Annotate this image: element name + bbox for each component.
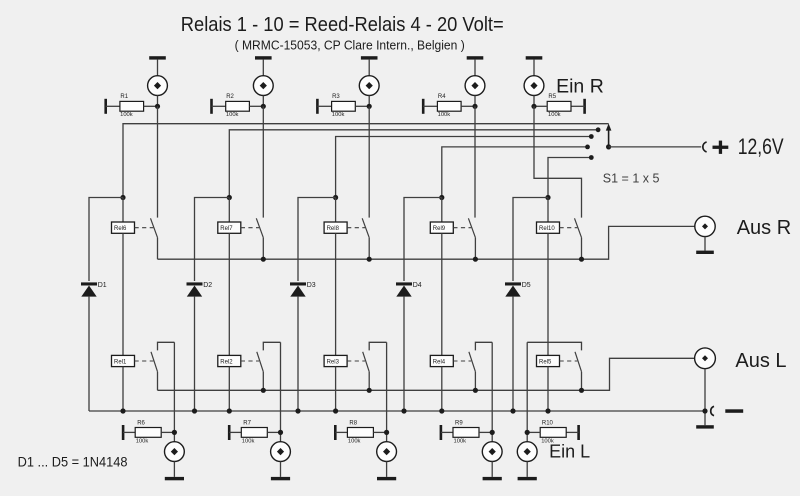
svg-text:100k: 100k: [348, 439, 361, 445]
svg-text:R2: R2: [226, 94, 234, 100]
wire coil feed into Rel9: [441, 198, 443, 223]
node rail junction coil column 4: [439, 408, 444, 413]
switch S1 wiper arm: [606, 124, 612, 147]
svg-text:Rel9: Rel9: [433, 226, 446, 232]
svg-text:R9: R9: [455, 421, 463, 427]
relay coil Rel5: [537, 355, 560, 366]
relay coil Rel6: [112, 222, 135, 233]
wire diode D1 to negative rail: [88, 297, 90, 411]
node rail junction diode D3: [295, 408, 300, 413]
relay contact Rel3 (switch): [363, 352, 370, 391]
switch S1 pole dot: [606, 144, 611, 149]
dashed actuation link Rel3: [347, 360, 365, 362]
wire S1 pole to +12,6V terminal: [609, 146, 702, 148]
node junction R2/jack 2: [261, 104, 266, 109]
svg-text:100k: 100k: [332, 112, 345, 118]
svg-text:Ein R: Ein R: [556, 76, 604, 98]
node rail junction diode D2: [192, 408, 197, 413]
ground (top, input 3): [361, 56, 378, 75]
dashed actuation link Rel4: [453, 360, 471, 362]
node rail junction coil column 1: [120, 408, 125, 413]
wire coil junction to diode D2: [195, 198, 230, 282]
node Aus L bus junction column 2: [261, 388, 266, 393]
relay contact Rel7 (switch): [256, 218, 263, 259]
node Aus R bus junction column 4: [473, 257, 478, 262]
node junction R7/jack Ein L 2: [278, 430, 283, 435]
wire jack 4 to node R4: [474, 96, 476, 107]
wire Aus L bus: [158, 358, 695, 390]
resistor R2 100k: [210, 94, 263, 118]
terminal socket +12,6V: [703, 142, 707, 152]
diode D2 1N4148: [187, 282, 203, 296]
resistor R3 100k: [316, 94, 369, 118]
wire diode D2 to negative rail: [194, 297, 196, 411]
svg-text:Ein L: Ein L: [549, 441, 590, 461]
wire coil Rel2 to negative rail: [228, 367, 230, 411]
jack Ein R input 4: [465, 76, 485, 96]
relay coil Rel7: [218, 222, 241, 233]
resistor R9 100k: [440, 421, 493, 445]
minus symbol: [725, 409, 743, 413]
wire input 5 to relay contact: [534, 106, 582, 217]
svg-text:D3: D3: [307, 282, 316, 289]
svg-text:R4: R4: [438, 94, 446, 100]
node coil junction column 1: [120, 195, 125, 200]
svg-text:Rel10: Rel10: [539, 226, 555, 232]
ground (top, input 1): [149, 56, 166, 75]
dashed actuation link Rel6: [135, 227, 154, 229]
node coil junction column 2: [227, 195, 232, 200]
wire negative supply rail: [89, 410, 705, 412]
svg-text:Aus R: Aus R: [737, 217, 791, 239]
node coil junction column 3: [333, 195, 338, 200]
dashed actuation link Rel9: [453, 227, 471, 229]
relay contact Rel6 (switch): [151, 218, 158, 259]
wire coil junction to diode D5: [513, 198, 548, 282]
wire input 1 to relay contact: [157, 106, 159, 217]
ground (bottom, input 1): [165, 462, 184, 481]
node junction R6/jack Ein L 1: [172, 430, 177, 435]
wire input 2 to relay contact: [262, 106, 264, 217]
svg-text:D2: D2: [203, 282, 212, 289]
wire diode D4 to negative rail: [403, 297, 405, 411]
diode D5 1N4148: [505, 282, 521, 296]
jack Ein R input 1: [148, 76, 168, 96]
wire coil feed into Rel7: [228, 198, 230, 223]
wire input Ein L 2 hook to contact: [263, 342, 280, 350]
wire coil Rel1 to negative rail: [122, 367, 124, 411]
node Aus L bus junction column 4: [473, 388, 478, 393]
resistor R8 100k: [334, 421, 387, 445]
svg-text:Rel8: Rel8: [327, 226, 340, 232]
node junction R10/jack Ein L 5: [525, 430, 530, 435]
wire input Ein L 4 hook to contact: [475, 342, 492, 350]
jack Ein L input 3: [377, 442, 397, 462]
resistor R5 100k: [534, 94, 586, 118]
node Aus L bus junction column 5: [579, 388, 584, 393]
resistor R1 100k: [104, 94, 157, 118]
svg-text:S1 = 1 x 5: S1 = 1 x 5: [603, 171, 660, 185]
jack Ein L input 1: [165, 442, 185, 462]
node Aus R bus junction column 3: [367, 257, 372, 262]
node junction R4/jack 4: [472, 104, 477, 109]
jack Aus L output: [695, 348, 716, 369]
wire coil Rel6 to Rel1: [122, 233, 124, 355]
svg-text:D5: D5: [522, 282, 531, 289]
wire coil feed into Rel8: [335, 198, 337, 223]
svg-text:100k: 100k: [454, 439, 467, 445]
wire Ein L input 2 riser: [280, 342, 282, 441]
node rail junction diode D4: [401, 408, 406, 413]
node rail junction diode D5: [510, 408, 515, 413]
wire Ein L input 3 riser: [386, 342, 388, 441]
svg-text:( MRMC-15053, CP Clare Intern.: ( MRMC-15053, CP Clare Intern., Belgien …: [235, 38, 465, 52]
jack Ein L input 5: [517, 442, 537, 462]
diode D1 1N4148: [81, 282, 97, 296]
wire coil feed into Rel10: [547, 198, 549, 223]
dashed actuation link Rel1: [135, 360, 154, 362]
wire jack 3 to node R3: [368, 96, 370, 107]
relay contact Rel1 (switch): [151, 352, 158, 391]
node rail junction coil column 3: [333, 408, 338, 413]
svg-text:Rel7: Rel7: [220, 226, 233, 232]
relay coil Rel4: [430, 355, 453, 366]
svg-text:12,6V: 12,6V: [738, 135, 785, 159]
jack Aus R output: [695, 216, 715, 236]
svg-text:Rel3: Rel3: [327, 360, 340, 366]
svg-text:R6: R6: [137, 421, 145, 427]
switch S1 contact dot position 4: [585, 145, 590, 150]
resistor R10 100k: [527, 421, 580, 445]
wire coil Rel4 to negative rail: [441, 367, 443, 411]
node coil junction column 5: [545, 195, 550, 200]
svg-text:Rel2: Rel2: [220, 360, 233, 366]
wire coil Rel3 to negative rail: [335, 367, 337, 411]
wire coil junction to diode D4: [404, 198, 442, 282]
ground (top, input 2): [255, 56, 272, 75]
node junction R3/jack 3: [367, 104, 372, 109]
wire S1 position 5 bus to relay coils column 5: [548, 158, 591, 198]
relay contact Rel4 (switch): [469, 352, 476, 391]
wire S1 position 2 bus to relay coils column 2: [229, 130, 598, 198]
wire Ein L input 5 riser: [526, 342, 528, 441]
node coil junction column 4: [439, 195, 444, 200]
dashed actuation link Rel2: [241, 360, 259, 362]
svg-text:R1: R1: [120, 94, 128, 100]
wire input Ein L 3 hook to contact: [369, 342, 386, 350]
relay coil Rel2: [218, 355, 241, 366]
svg-text:Rel6: Rel6: [114, 226, 127, 232]
relay contact Rel10 (switch): [575, 218, 582, 259]
ground (top, input 4): [467, 56, 484, 75]
wire diode D5 to negative rail: [512, 297, 514, 411]
relay contact Rel8 (switch): [362, 218, 369, 259]
node Aus R bus junction column 5: [579, 257, 584, 262]
relay coil Rel10: [537, 222, 560, 233]
svg-text:100k: 100k: [242, 439, 255, 445]
wire Ein L input 1 riser: [173, 342, 175, 441]
jack Ein L input 4: [482, 442, 502, 462]
wire Aus R bus: [158, 226, 695, 259]
ground (bottom, input 5): [518, 462, 537, 481]
svg-text:Aus L: Aus L: [735, 350, 786, 372]
svg-text:R8: R8: [349, 421, 357, 427]
node Aus L bus junction column 3: [367, 388, 372, 393]
svg-text:R10: R10: [542, 421, 554, 427]
svg-text:Rel1: Rel1: [114, 360, 127, 366]
wire jack 5 to node R5: [533, 96, 535, 107]
relay contact Rel5 (switch): [575, 352, 582, 391]
svg-text:100k: 100k: [548, 112, 561, 118]
dashed actuation link Rel7: [241, 227, 259, 229]
switch S1 contact dot position 3: [589, 134, 594, 139]
svg-text:R7: R7: [243, 421, 251, 427]
relay contact Rel2 (switch): [257, 352, 264, 391]
resistor R6 100k: [122, 421, 175, 445]
relay coil Rel8: [324, 222, 347, 233]
jack Ein R input 2: [253, 76, 273, 96]
wire jack 1 to node R1: [157, 96, 159, 107]
ground (top, input 5): [526, 56, 543, 75]
ground (bottom, input 3): [377, 462, 396, 481]
wire diode D3 to negative rail: [297, 297, 299, 411]
ground (Aus R jack): [696, 237, 714, 254]
node rail junction Aus L ground: [702, 408, 707, 413]
wire coil junction to diode D3: [298, 198, 336, 282]
resistor R7 100k: [228, 421, 281, 445]
node junction R9/jack Ein L 4: [490, 430, 495, 435]
svg-text:R3: R3: [332, 94, 340, 100]
svg-text:100k: 100k: [438, 112, 451, 118]
svg-text:100k: 100k: [136, 439, 149, 445]
jack Ein R input 3: [359, 76, 379, 96]
ground (bottom, input 4): [483, 462, 502, 481]
node junction R8/jack Ein L 3: [384, 430, 389, 435]
wire S1 position 3 bus to relay coils column 3: [336, 137, 592, 198]
switch S1 contact dot position 2: [596, 127, 601, 132]
plus symbol: [713, 141, 729, 154]
switch S1 contact dot position 5: [589, 155, 594, 160]
wire coil Rel10 to Rel5: [547, 233, 549, 355]
svg-text:Rel5: Rel5: [539, 360, 552, 366]
wire coil Rel9 to Rel4: [441, 233, 443, 355]
relay coil Rel9: [430, 222, 453, 233]
jack Ein L input 2: [271, 442, 291, 462]
wire coil feed into Rel6: [122, 198, 124, 223]
diode D3 1N4148: [290, 282, 306, 296]
node Aus R bus junction column 2: [261, 257, 266, 262]
wire Aus L jack sleeve to negative rail: [704, 369, 706, 426]
wire input Ein L 1 hook to contact: [158, 342, 175, 350]
terminal socket minus: [711, 406, 714, 415]
wire S1 position 4 bus to relay coils column 4: [442, 147, 588, 198]
svg-text:Relais 1 - 10 = Reed-Relais 4: Relais 1 - 10 = Reed-Relais 4 - 20 Volt=: [181, 14, 504, 36]
wire input Ein L 5 hook to contact: [527, 342, 581, 350]
wire input 4 to relay contact: [474, 106, 476, 217]
node junction R1/jack 1: [155, 104, 160, 109]
wire jack 2 to node R2: [262, 96, 264, 107]
svg-text:100k: 100k: [226, 112, 239, 118]
node junction R5/jack 5: [531, 104, 536, 109]
wire coil Rel5 to negative rail: [547, 367, 549, 411]
wire S1 position 1 bus to relay coils column 1: [123, 124, 609, 198]
wire input 3 to relay contact: [368, 106, 370, 217]
jack Ein R input 5: [524, 76, 544, 96]
wire Ein L input 4 riser: [491, 342, 493, 441]
dashed actuation link Rel10: [560, 227, 578, 229]
ground (bottom, input 2): [271, 462, 290, 481]
dashed actuation link Rel5: [560, 360, 578, 362]
wire coil junction to diode D1: [89, 198, 123, 282]
svg-text:D1 ... D5 = 1N4148: D1 ... D5 = 1N4148: [18, 454, 128, 470]
svg-text:Rel4: Rel4: [433, 360, 446, 366]
relay coil Rel1: [112, 355, 135, 366]
wire coil Rel8 to Rel3: [335, 233, 337, 355]
svg-text:D4: D4: [413, 282, 422, 289]
diode D4 1N4148: [396, 282, 412, 296]
relay coil Rel3: [324, 355, 347, 366]
svg-text:100k: 100k: [120, 112, 133, 118]
resistor R4 100k: [422, 94, 475, 118]
node rail junction coil column 5: [545, 408, 550, 413]
svg-text:D1: D1: [98, 282, 107, 289]
dashed actuation link Rel8: [347, 227, 365, 229]
node rail junction coil column 2: [227, 408, 232, 413]
ground (Aus L jack / minus): [696, 425, 714, 428]
relay contact Rel9 (switch): [468, 218, 475, 259]
wire coil Rel7 to Rel2: [228, 233, 230, 355]
